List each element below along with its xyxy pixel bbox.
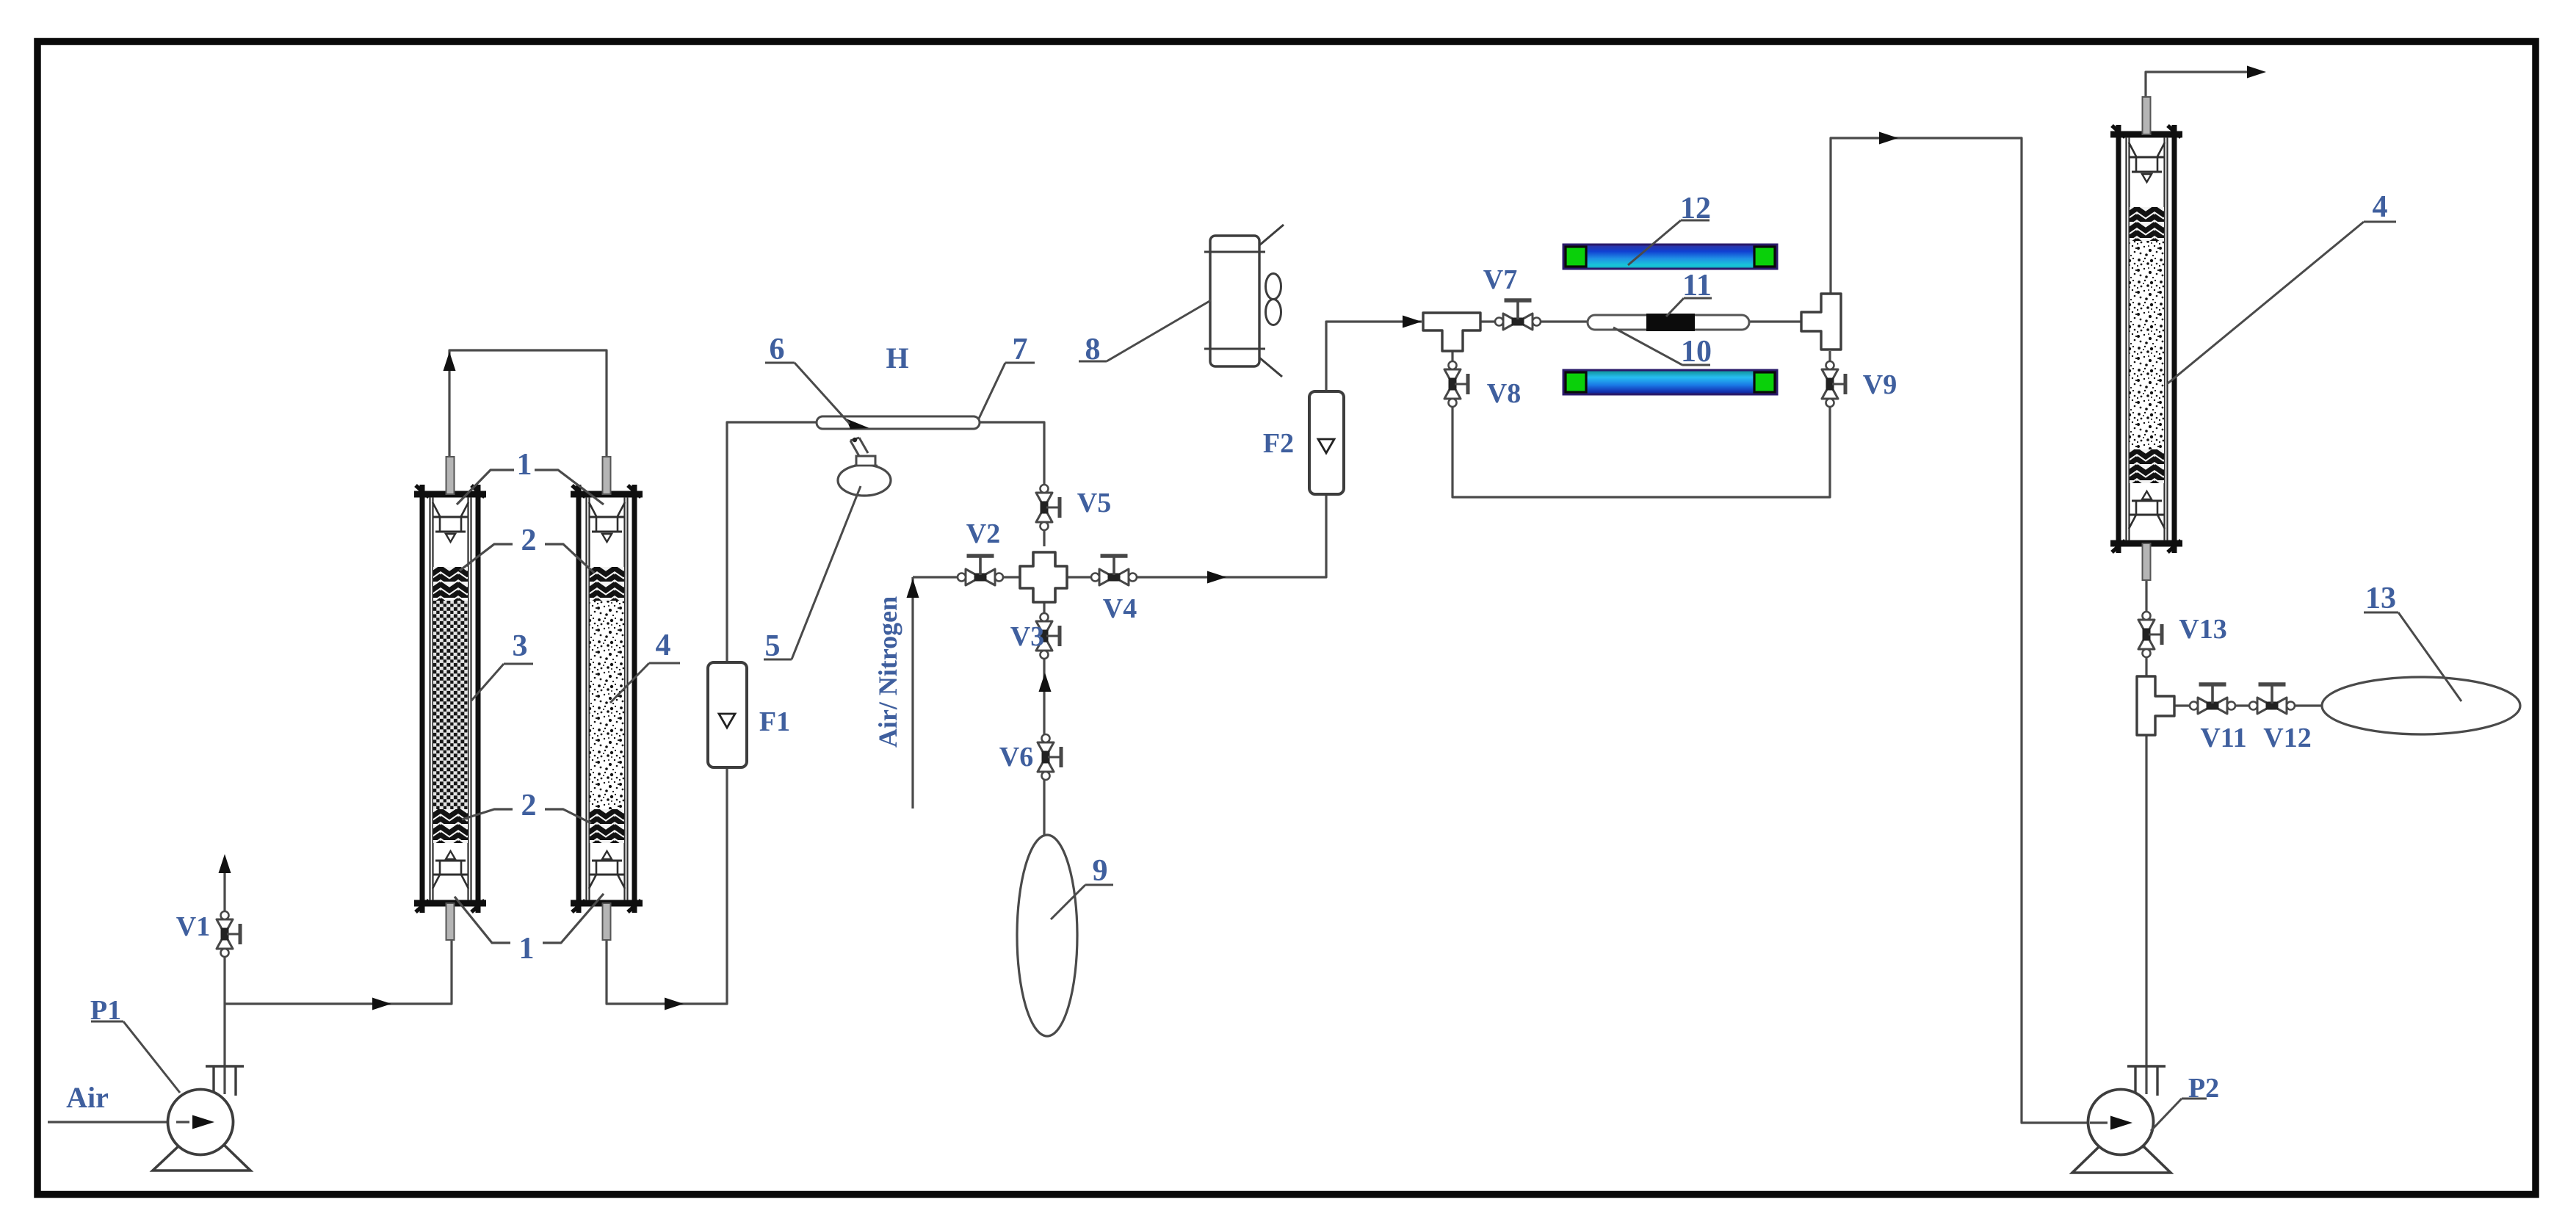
label P1 [90,995,180,1093]
label V3 [1010,621,1044,652]
nebulizer item 5 [838,438,891,496]
wire: P1 to column 1 bottom [225,940,452,1010]
svg-text:2: 2 [521,789,537,822]
cross junction fitting [1020,552,1067,602]
label V9 [1863,369,1897,400]
svg-text:V8: V8 [1487,378,1521,409]
label 12 [1628,192,1711,265]
label 7 [979,333,1035,419]
pump P1 [153,1066,250,1171]
label V7 [1483,264,1517,295]
valve V11 [2190,684,2235,714]
label Air/Nitrogen [873,596,902,748]
heater H tube (items 6/7) [817,416,980,429]
valve V13 [2138,612,2162,657]
svg-text:V13: V13 [2179,614,2226,645]
label 3 [471,629,533,701]
svg-text:10: 10 [1681,335,1712,369]
label F1 [759,706,790,737]
label 1 (top) [457,448,604,504]
svg-text:Air: Air [66,1081,109,1114]
valve V1 [217,911,240,957]
flowmeter F2 [1309,391,1344,494]
svg-text:13: 13 [2365,582,2396,615]
svg-text:V2: V2 [966,518,1000,549]
label 2 (top) [460,524,594,573]
label V12 [2263,723,2311,753]
label V11 [2200,723,2246,753]
valve V12 [2249,684,2295,714]
svg-text:V3: V3 [1010,621,1044,652]
wire: cross junction down to balloon 9 via V3 and V6 [1039,593,1052,836]
svg-text:1: 1 [519,932,535,966]
svg-text:V7: V7 [1483,264,1517,295]
valve V6 [1038,734,1061,780]
valve V4 [1091,556,1137,585]
wire: tee T2 up and over to pump P2 inlet [1831,132,2090,1124]
label 4 (column 4) [2167,190,2396,384]
svg-text:6: 6 [770,333,785,366]
valve V9 [1822,361,1845,407]
label 4 (column 2) [610,629,680,703]
wire: P1 riser with vent [219,854,231,1094]
svg-text:V11: V11 [2200,723,2246,753]
wire: F1 top to heater H [727,422,817,663]
svg-text:F2: F2 [1263,428,1294,459]
svg-text:V6: V6 [999,742,1033,773]
column 2 (silica gel column) frame [571,457,643,940]
wire: tee T3 to column 4 bottom via V13 [2145,581,2147,676]
label 11 [1666,269,1712,316]
valve V7 [1495,300,1541,330]
label 2 (bottom) [462,789,591,823]
label F2 [1263,428,1294,459]
UV lamp (bottom) [1563,370,1777,394]
svg-text:4: 4 [2373,190,2388,224]
label H [886,341,908,375]
tee fitting T2 [1801,294,1841,350]
label V8 [1487,378,1521,409]
wire: heater H to cross junction via V5 [980,422,1044,546]
svg-text:V4: V4 [1103,593,1137,624]
svg-text:4: 4 [656,629,671,662]
wire: tee T3 to flask 13 via V11 and V12 [2174,704,2323,706]
label Air [66,1081,109,1114]
label V6 [999,742,1033,773]
condenser/fan item 8 [1204,225,1284,377]
tee fitting T1 [1423,313,1480,351]
label 10 [1613,328,1712,369]
column 1 (GAC column) frame [414,457,486,940]
wire: column 4 top outlet [2146,66,2266,100]
label V1 [176,911,210,942]
svg-text:1: 1 [517,448,532,482]
wire: P2 outlet riser to tee T3 [2145,736,2147,1094]
wire: column 2 bottom to flowmeter F1 [607,768,727,1010]
valve V3 [1036,613,1060,659]
label V4 [1103,593,1137,624]
wire: bypass loop V8 to V9 [1452,351,1830,497]
label V2 [966,518,1000,549]
label 5 [764,486,861,663]
svg-text:V9: V9 [1863,369,1897,400]
label 6 [765,333,850,424]
svg-text:V1: V1 [176,911,210,942]
valve V5 [1036,485,1060,530]
wire: F2 top to tee T1 [1326,316,1422,394]
svg-text:2: 2 [521,524,537,557]
svg-text:9: 9 [1093,854,1108,888]
UV lamp 12 (top) [1563,245,1777,269]
label 8 [1079,300,1211,366]
catalyst section item 11 [1646,314,1695,331]
wire: cross junction to F2 via V4 [1066,496,1326,584]
svg-text:7: 7 [1013,333,1028,366]
tee fitting T3 [2137,676,2174,735]
label 13 [2364,582,2461,701]
valve V8 [1444,361,1468,407]
label 9 [1051,854,1113,919]
svg-text:3: 3 [513,629,528,663]
flowmeter F1 [708,662,747,767]
pump P2 [2072,1066,2171,1173]
label P2 [2151,1073,2219,1131]
balloon item 9 [1017,835,1077,1036]
label 1 (bottom) [455,894,604,966]
wire: Air inlet to pump P1 [48,1116,209,1129]
svg-text:5: 5 [765,629,781,663]
wire: tee T1 to reactor tube via V7 [1480,320,1588,322]
flask item 13 [2322,677,2520,734]
column 4 (packed column, right) [2110,97,2182,580]
wire: Air/Nitrogen inlet line [907,577,1021,808]
svg-text:F1: F1 [759,706,790,737]
label V13 [2179,614,2226,645]
svg-text:Air/ Nitrogen: Air/ Nitrogen [873,596,902,748]
svg-text:H: H [886,341,908,375]
wire: reactor tube to tee T2 [1748,320,1803,322]
svg-text:V5: V5 [1077,488,1111,518]
svg-text:V12: V12 [2263,723,2311,753]
wire: column 1 top to column 2 top [444,350,607,459]
reactor tube item 10 [1588,314,1749,331]
label V5 [1077,488,1111,518]
valve V2 [958,556,1003,585]
